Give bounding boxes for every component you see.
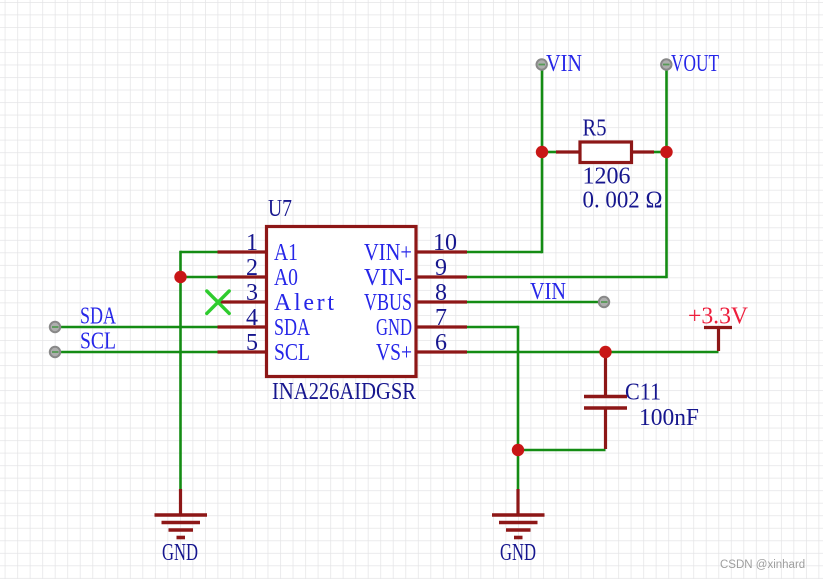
- svg-text:5: 5: [246, 330, 258, 356]
- svg-text:GND: GND: [162, 540, 198, 566]
- svg-text:6: 6: [435, 330, 447, 356]
- svg-text:8: 8: [435, 280, 447, 306]
- svg-text:SCL: SCL: [274, 340, 310, 366]
- svg-text:3: 3: [246, 280, 258, 306]
- svg-text:VBUS: VBUS: [364, 290, 412, 316]
- svg-text:GND: GND: [376, 315, 412, 341]
- svg-text:SDA: SDA: [274, 315, 310, 341]
- svg-text:INA226AIDGSR: INA226AIDGSR: [272, 379, 416, 405]
- svg-text:7: 7: [435, 305, 447, 331]
- svg-text:VIN+: VIN+: [364, 240, 412, 266]
- svg-text:A0: A0: [274, 265, 298, 291]
- svg-text:VIN: VIN: [530, 279, 566, 305]
- svg-text:VIN-: VIN-: [364, 265, 412, 291]
- svg-text:1: 1: [246, 230, 258, 256]
- svg-text:GND: GND: [500, 540, 536, 566]
- svg-text:4: 4: [246, 305, 258, 331]
- svg-text:U7: U7: [268, 196, 292, 222]
- svg-text:1206: 1206: [583, 164, 631, 190]
- svg-text:0. 002 Ω: 0. 002 Ω: [583, 188, 663, 214]
- svg-text:SCL: SCL: [80, 329, 116, 355]
- svg-text:C11: C11: [625, 380, 661, 406]
- svg-text:10: 10: [433, 230, 457, 256]
- svg-text:A1: A1: [274, 240, 298, 266]
- svg-text:9: 9: [435, 255, 447, 281]
- svg-text:+3.3V: +3.3V: [688, 304, 749, 330]
- svg-text:100nF: 100nF: [639, 405, 699, 431]
- svg-text:VIN: VIN: [546, 51, 582, 77]
- svg-text:VOUT: VOUT: [671, 51, 719, 77]
- svg-text:VS+: VS+: [376, 340, 412, 366]
- svg-text:R5: R5: [583, 116, 607, 142]
- svg-text:SDA: SDA: [80, 304, 116, 330]
- svg-text:2: 2: [246, 255, 258, 281]
- svg-text:CSDN @xinhard: CSDN @xinhard: [720, 559, 805, 571]
